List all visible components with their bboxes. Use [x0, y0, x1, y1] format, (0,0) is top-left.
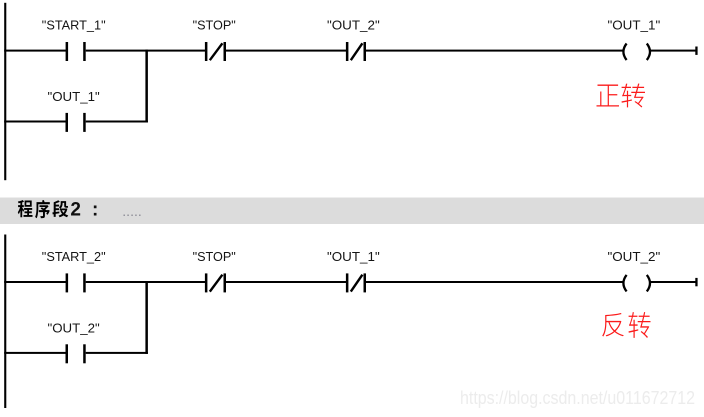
right terminal tick	[695, 47, 697, 55]
svg-text:"OUT_1": "OUT_1"	[608, 17, 661, 32]
wire: STOP to OUT_2	[226, 50, 347, 52]
contact STOP (NC) right bar	[224, 273, 227, 292]
contact STOP (NC) right bar	[224, 42, 227, 61]
annotation 反转 (reverse) char 反	[602, 313, 624, 337]
right terminal tick	[695, 278, 697, 286]
wire: branch contact OUT_2 to branch vertical	[86, 352, 148, 354]
wire: coil OUT_1 to right terminal	[651, 50, 697, 52]
contact OUT_1 (NC) right bar	[364, 273, 367, 292]
wire: coil OUT_2 to right terminal	[651, 281, 697, 283]
annotation 反转 (reverse) char 转	[629, 312, 651, 338]
contact STOP (NC) slash	[210, 43, 223, 60]
wire: START_2 to STOP, with branch junction	[86, 281, 206, 283]
contact START_2 (NO) right bar	[83, 273, 86, 292]
contact OUT_2 (NC) slash	[351, 43, 363, 60]
contact OUT_1 (NO) right bar	[83, 113, 86, 132]
network 2 title bar	[0, 198, 704, 225]
wire: left rail to START_2	[4, 281, 66, 283]
contact OUT_1 (NC) slash	[351, 275, 363, 292]
svg-text:https://blog.csdn.net/u0116727: https://blog.csdn.net/u011672712	[460, 388, 695, 408]
contact START_2 (NO) left bar	[66, 273, 69, 292]
contact OUT_2 (NO) right bar	[83, 344, 86, 363]
title char 程	[18, 200, 33, 217]
wire: OUT_2 to coil OUT_1	[366, 50, 623, 52]
coil OUT_2 right parenthesis	[647, 275, 650, 292]
svg-text:"OUT_2": "OUT_2"	[608, 249, 661, 264]
branch vertical wire	[145, 281, 148, 354]
network 2 left power rail	[4, 235, 6, 409]
svg-text:.....: .....	[122, 203, 141, 219]
svg-text:"STOP": "STOP"	[193, 17, 237, 32]
network 1 left power rail	[4, 3, 6, 180]
contact START_1 (NO) left bar	[66, 42, 69, 61]
contact OUT_1 (NO) left bar	[66, 113, 69, 132]
wire: OUT_1 to coil OUT_2	[366, 281, 623, 283]
annotation 正转 (forward) char 转	[622, 84, 646, 108]
contact OUT_2 (NC) right bar	[364, 42, 367, 61]
coil OUT_2 left parenthesis	[623, 275, 626, 292]
svg-text:"STOP": "STOP"	[193, 249, 237, 264]
contact OUT_1 (NC) left bar	[346, 273, 349, 292]
svg-text:"OUT_2": "OUT_2"	[48, 320, 101, 335]
annotation 正转 (forward) char 正	[597, 85, 620, 107]
svg-text:"OUT_1": "OUT_1"	[327, 249, 380, 264]
svg-text::: :	[92, 199, 98, 220]
contact OUT_2 (NO) left bar	[66, 344, 69, 363]
coil OUT_1 left parenthesis	[623, 44, 626, 61]
svg-text:2: 2	[70, 199, 81, 220]
wire: left rail to branch contact OUT_2	[4, 352, 66, 354]
svg-text:"OUT_1": "OUT_1"	[48, 89, 101, 104]
title char 段	[52, 200, 68, 217]
wire: left rail to START_1	[4, 50, 66, 52]
svg-text:"START_1": "START_1"	[42, 17, 106, 32]
contact START_1 (NO) right bar	[83, 42, 86, 61]
svg-text:"START_2": "START_2"	[42, 249, 106, 264]
wire: left rail to branch contact OUT_1	[4, 121, 66, 123]
svg-text:"OUT_2": "OUT_2"	[327, 17, 380, 32]
contact OUT_2 (NC) left bar	[346, 42, 349, 61]
contact STOP (NC) left bar	[205, 42, 208, 61]
title char 序	[35, 200, 50, 218]
contact STOP (NC) slash	[210, 275, 223, 292]
wire: branch contact OUT_1 to branch vertical	[86, 121, 148, 123]
contact STOP (NC) left bar	[205, 273, 208, 292]
wire: STOP to OUT_1	[226, 281, 347, 283]
wire: START_1 to STOP, with branch junction	[86, 50, 206, 52]
branch vertical wire	[145, 50, 148, 123]
coil OUT_1 right parenthesis	[647, 44, 650, 61]
